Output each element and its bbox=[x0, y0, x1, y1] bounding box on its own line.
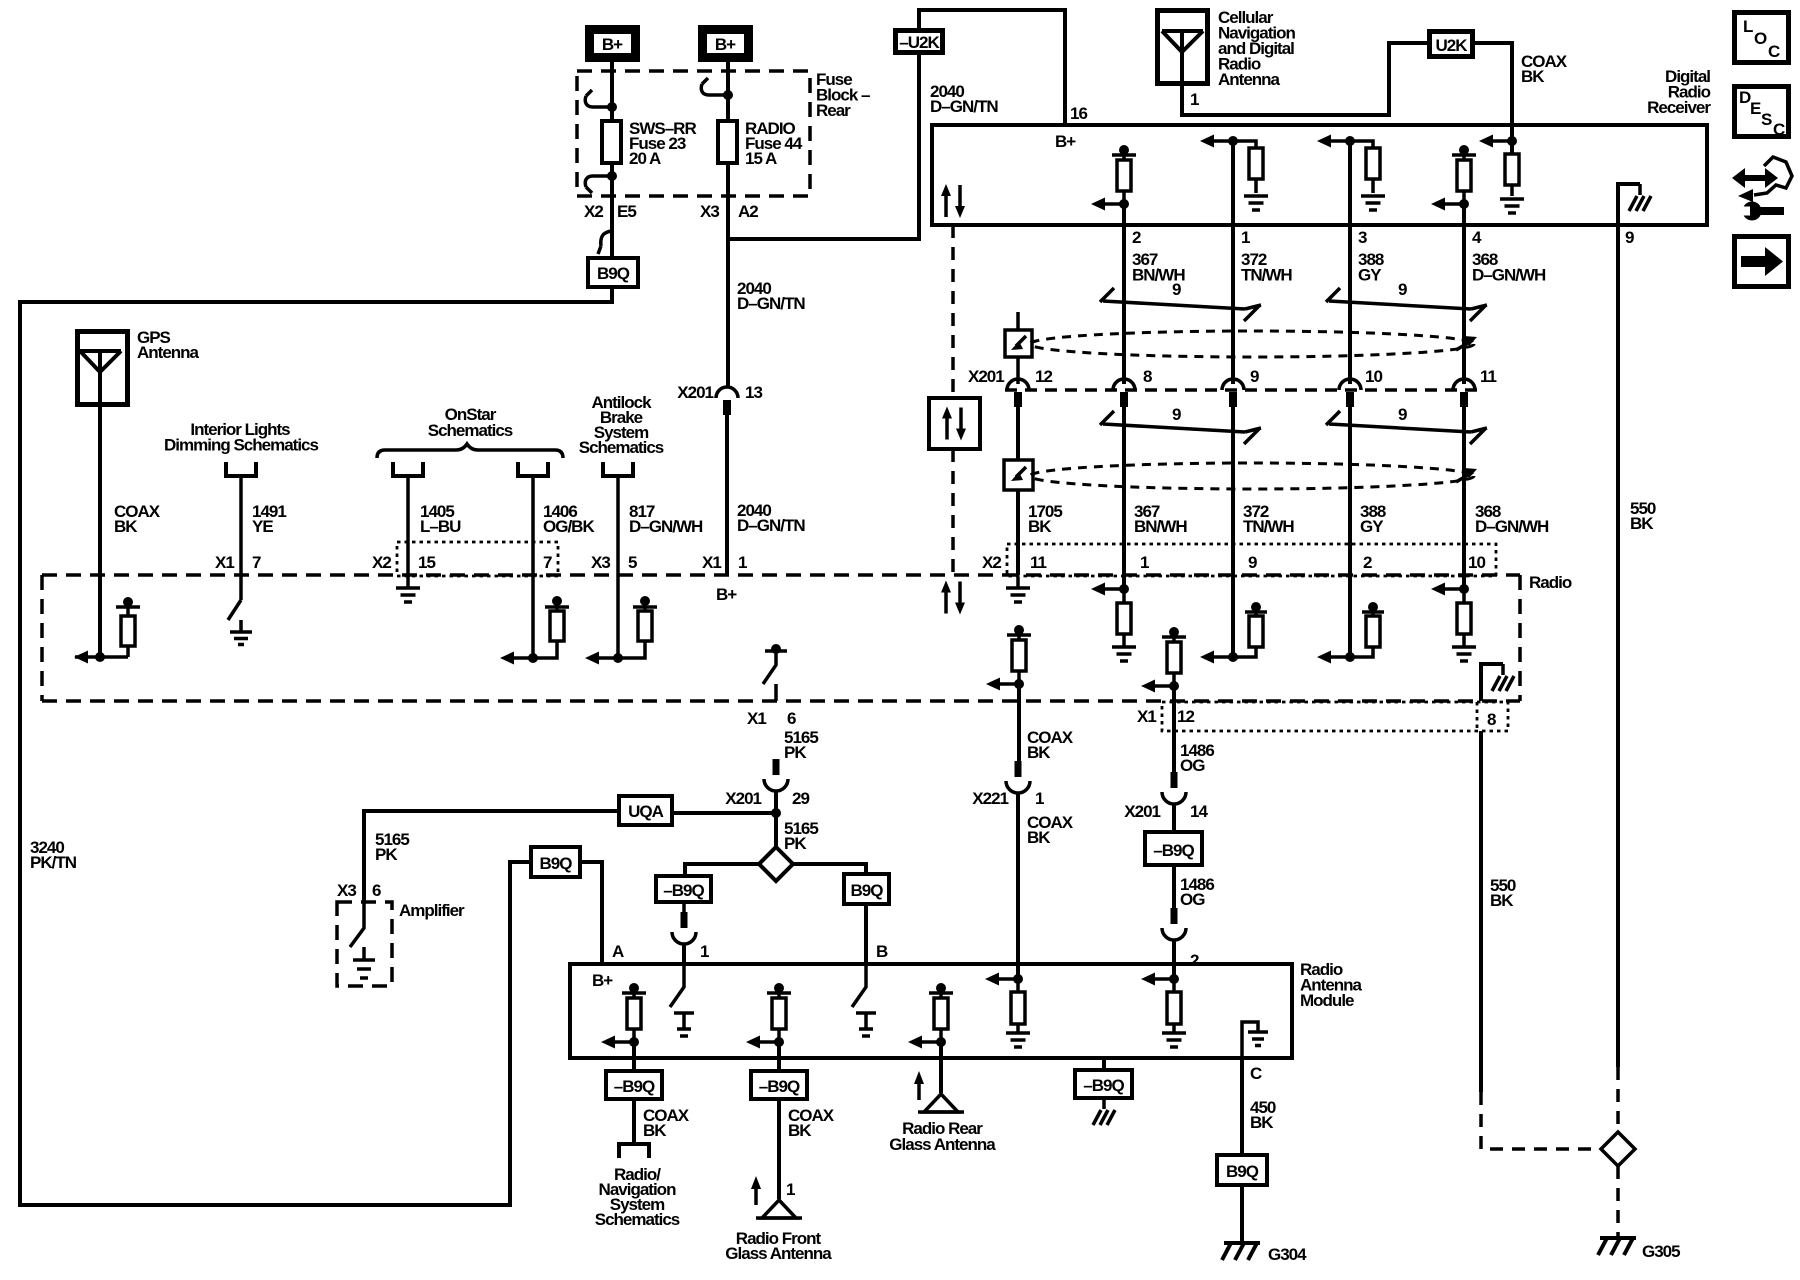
svg-text:9: 9 bbox=[1250, 367, 1259, 386]
svg-text:11: 11 bbox=[1030, 553, 1047, 572]
svg-text:PK: PK bbox=[784, 834, 807, 853]
svg-text:PK: PK bbox=[784, 743, 807, 762]
svg-text:B9Q: B9Q bbox=[540, 854, 573, 873]
svg-text:L: L bbox=[1743, 17, 1753, 36]
svg-text:B: B bbox=[876, 942, 888, 961]
svg-text:X201: X201 bbox=[968, 367, 1004, 386]
svg-text:X1: X1 bbox=[702, 553, 721, 572]
svg-text:C: C bbox=[1773, 120, 1785, 139]
svg-text:9: 9 bbox=[1172, 280, 1181, 299]
svg-text:15 A: 15 A bbox=[745, 149, 777, 168]
svg-text:X3: X3 bbox=[337, 881, 356, 900]
svg-text:1: 1 bbox=[738, 553, 747, 572]
svg-text:Amplifier: Amplifier bbox=[399, 901, 465, 920]
svg-text:13: 13 bbox=[745, 383, 762, 402]
svg-text:X201: X201 bbox=[677, 383, 713, 402]
svg-text:OG: OG bbox=[1180, 756, 1205, 775]
svg-text:–B9Q: –B9Q bbox=[663, 881, 704, 900]
svg-text:X3: X3 bbox=[591, 553, 610, 572]
svg-text:UQA: UQA bbox=[628, 802, 664, 821]
svg-text:E5: E5 bbox=[617, 202, 636, 221]
svg-text:12: 12 bbox=[1177, 707, 1194, 726]
svg-text:1: 1 bbox=[1140, 553, 1149, 572]
svg-text:Module: Module bbox=[1300, 991, 1354, 1010]
svg-text:8: 8 bbox=[1487, 710, 1496, 729]
svg-text:9: 9 bbox=[1625, 228, 1634, 247]
svg-text:Schematics: Schematics bbox=[579, 438, 664, 457]
svg-text:10: 10 bbox=[1365, 367, 1382, 386]
svg-text:X2: X2 bbox=[982, 553, 1001, 572]
svg-text:D–GN/TN: D–GN/TN bbox=[737, 516, 805, 535]
svg-text:12: 12 bbox=[1035, 367, 1052, 386]
svg-text:BK: BK bbox=[1027, 828, 1051, 847]
svg-text:BK: BK bbox=[788, 1121, 812, 1140]
svg-text:D–GN/WH: D–GN/WH bbox=[629, 517, 703, 536]
svg-text:29: 29 bbox=[792, 789, 809, 808]
svg-text:6: 6 bbox=[787, 709, 796, 728]
svg-text:BK: BK bbox=[1521, 67, 1545, 86]
svg-text:3: 3 bbox=[1358, 228, 1367, 247]
svg-text:X1: X1 bbox=[747, 709, 766, 728]
svg-text:B+: B+ bbox=[716, 585, 737, 604]
svg-text:X1: X1 bbox=[215, 553, 234, 572]
svg-text:B9Q: B9Q bbox=[1226, 1162, 1259, 1181]
svg-text:–U2K: –U2K bbox=[899, 33, 940, 52]
svg-text:G304: G304 bbox=[1268, 1245, 1307, 1264]
svg-text:L–BU: L–BU bbox=[420, 517, 461, 536]
svg-text:Glass Antenna: Glass Antenna bbox=[725, 1244, 832, 1263]
svg-text:C: C bbox=[1768, 42, 1780, 61]
svg-text:14: 14 bbox=[1190, 802, 1208, 821]
svg-text:D–GN/TN: D–GN/TN bbox=[930, 97, 998, 116]
svg-text:B+: B+ bbox=[715, 35, 736, 54]
svg-text:X3: X3 bbox=[700, 202, 719, 221]
svg-text:8: 8 bbox=[1143, 367, 1152, 386]
svg-text:GY: GY bbox=[1360, 517, 1384, 536]
svg-text:TN/WH: TN/WH bbox=[1243, 517, 1294, 536]
svg-text:9: 9 bbox=[1398, 405, 1407, 424]
svg-text:11: 11 bbox=[1480, 367, 1497, 386]
svg-text:15: 15 bbox=[418, 553, 435, 572]
svg-text:2: 2 bbox=[1363, 553, 1372, 572]
svg-text:X201: X201 bbox=[1124, 802, 1160, 821]
svg-text:B+: B+ bbox=[602, 35, 623, 54]
svg-text:X201: X201 bbox=[725, 789, 761, 808]
svg-text:BK: BK bbox=[643, 1121, 667, 1140]
svg-text:2: 2 bbox=[1190, 951, 1199, 970]
svg-text:16: 16 bbox=[1070, 104, 1087, 123]
svg-text:1: 1 bbox=[1241, 228, 1250, 247]
svg-text:BK: BK bbox=[1250, 1113, 1274, 1132]
svg-text:9: 9 bbox=[1248, 553, 1257, 572]
svg-text:A2: A2 bbox=[738, 202, 758, 221]
svg-text:X221: X221 bbox=[972, 789, 1008, 808]
svg-text:D–GN/TN: D–GN/TN bbox=[737, 294, 805, 313]
svg-text:OG/BK: OG/BK bbox=[543, 517, 595, 536]
svg-text:B9Q: B9Q bbox=[597, 264, 630, 283]
svg-text:E: E bbox=[1750, 99, 1761, 118]
svg-text:BK: BK bbox=[1028, 517, 1052, 536]
svg-text:B+: B+ bbox=[592, 971, 613, 990]
svg-text:7: 7 bbox=[252, 553, 261, 572]
svg-text:10: 10 bbox=[1468, 553, 1485, 572]
svg-text:D–GN/WH: D–GN/WH bbox=[1475, 517, 1549, 536]
svg-text:5: 5 bbox=[628, 553, 637, 572]
svg-text:X1: X1 bbox=[1137, 707, 1156, 726]
svg-text:1: 1 bbox=[1035, 789, 1044, 808]
svg-text:2: 2 bbox=[1132, 228, 1141, 247]
svg-text:OG: OG bbox=[1180, 890, 1205, 909]
svg-text:20 A: 20 A bbox=[629, 149, 661, 168]
svg-text:YE: YE bbox=[252, 517, 273, 536]
svg-text:G305: G305 bbox=[1642, 1242, 1680, 1261]
svg-text:BN/WH: BN/WH bbox=[1134, 517, 1187, 536]
svg-text:B9Q: B9Q bbox=[851, 881, 884, 900]
svg-text:BK: BK bbox=[1630, 514, 1654, 533]
svg-text:X2: X2 bbox=[372, 553, 391, 572]
svg-text:1: 1 bbox=[700, 942, 709, 961]
svg-text:–B9Q: –B9Q bbox=[1083, 1076, 1124, 1095]
svg-text:PK/TN: PK/TN bbox=[30, 853, 77, 872]
svg-text:–B9Q: –B9Q bbox=[1153, 841, 1194, 860]
svg-text:D–GN/WH: D–GN/WH bbox=[1472, 266, 1546, 285]
svg-text:Schematics: Schematics bbox=[595, 1210, 680, 1229]
svg-text:C: C bbox=[1250, 1064, 1262, 1083]
svg-text:BK: BK bbox=[1027, 743, 1051, 762]
svg-text:U2K: U2K bbox=[1435, 36, 1468, 55]
svg-text:B+: B+ bbox=[1055, 132, 1076, 151]
svg-text:GY: GY bbox=[1358, 266, 1382, 285]
svg-text:7: 7 bbox=[543, 553, 552, 572]
svg-text:A: A bbox=[612, 942, 624, 961]
svg-text:9: 9 bbox=[1172, 405, 1181, 424]
svg-text:Receiver: Receiver bbox=[1647, 98, 1711, 117]
svg-text:Glass Antenna: Glass Antenna bbox=[889, 1135, 996, 1154]
svg-text:PK: PK bbox=[375, 845, 398, 864]
svg-text:Dimming Schematics: Dimming Schematics bbox=[164, 436, 318, 455]
svg-text:9: 9 bbox=[1398, 280, 1407, 299]
svg-text:X2: X2 bbox=[584, 202, 603, 221]
svg-text:1: 1 bbox=[1190, 90, 1199, 109]
svg-text:O: O bbox=[1754, 29, 1767, 48]
svg-text:Schematics: Schematics bbox=[428, 421, 513, 440]
svg-text:–B9Q: –B9Q bbox=[759, 1077, 800, 1096]
svg-text:–B9Q: –B9Q bbox=[614, 1077, 655, 1096]
svg-text:6: 6 bbox=[372, 881, 381, 900]
svg-text:Rear: Rear bbox=[816, 101, 851, 120]
svg-text:BK: BK bbox=[114, 517, 138, 536]
svg-text:Antenna: Antenna bbox=[137, 343, 200, 362]
svg-text:TN/WH: TN/WH bbox=[1241, 266, 1292, 285]
svg-text:Radio: Radio bbox=[1529, 573, 1572, 592]
svg-text:Antenna: Antenna bbox=[1218, 70, 1281, 89]
svg-text:BK: BK bbox=[1490, 891, 1514, 910]
svg-text:S: S bbox=[1761, 110, 1772, 129]
svg-text:1: 1 bbox=[786, 1180, 795, 1199]
